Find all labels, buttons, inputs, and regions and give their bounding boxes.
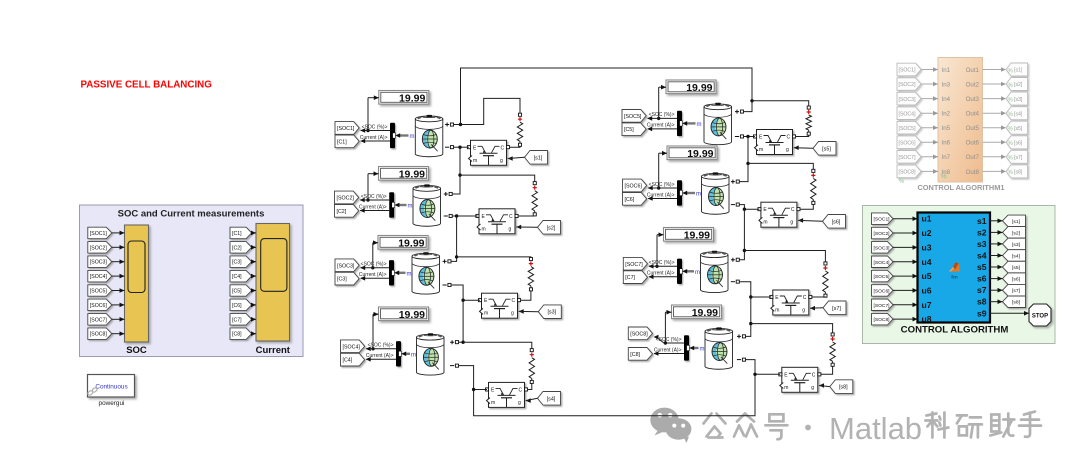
svg-text:[SOC7]: [SOC7] <box>899 155 917 161</box>
wire <box>990 278 1003 280</box>
from tag [SOC4] green panel <box>872 256 894 268</box>
gate arrow cell3 <box>519 309 524 314</box>
wire cell7 - path <box>740 282 772 297</box>
svg-text:[s6]: [s6] <box>1014 140 1023 146</box>
svg-text:%: % <box>1008 141 1014 147</box>
svg-text:[C4]: [C4] <box>343 358 353 364</box>
svg-text:m: m <box>407 271 412 277</box>
svg-text:m: m <box>700 347 705 353</box>
svg-text:u6: u6 <box>922 285 932 295</box>
svg-text:[C6]: [C6] <box>232 303 242 309</box>
battery + port cell5 <box>735 110 739 114</box>
svg-text:[SOC5]: [SOC5] <box>899 126 917 132</box>
wire <box>921 69 938 71</box>
commented from tag [SOC7] <box>897 151 921 164</box>
svg-text:19.99: 19.99 <box>684 230 710 242</box>
wire cell3 - path <box>451 285 480 300</box>
svg-text:Continuous: Continuous <box>95 384 127 391</box>
from tag [SOC2] green panel <box>872 227 894 239</box>
goto tag [SOC7] <box>623 257 647 270</box>
svg-text:[s1]: [s1] <box>534 155 543 161</box>
scope block SOC <box>125 225 149 342</box>
demux cell5 <box>677 111 682 136</box>
svg-text:[C1]: [C1] <box>232 231 242 237</box>
wire bottom rail <box>474 374 755 416</box>
STOP block <box>1029 304 1051 326</box>
svg-text:[s5]: [s5] <box>822 146 831 152</box>
wire cell6- to cell7+ <box>740 209 745 260</box>
svg-text:[s2]: [s2] <box>1012 230 1021 236</box>
wire resistor to C cell1 <box>510 146 520 149</box>
goto tag [C6] <box>623 193 647 206</box>
svg-text:In1: In1 <box>942 67 951 74</box>
battery - port cell7 <box>731 281 735 283</box>
resistor R3 <box>529 258 532 261</box>
svg-text:s9: s9 <box>977 308 987 318</box>
commented from tag [SOC6] <box>897 136 921 149</box>
panel SOC and Current measurements <box>80 205 304 357</box>
svg-text:[C2]: [C2] <box>337 209 347 215</box>
svg-text:[C8]: [C8] <box>232 332 242 338</box>
svg-text:%: % <box>1008 170 1014 176</box>
fcn logo <box>949 263 960 271</box>
svg-text:u8: u8 <box>922 314 932 324</box>
display Display1 19.99 <box>379 91 429 105</box>
from tag [SOC5] panel <box>88 285 112 296</box>
svg-text:<SOC (%)>: <SOC (%)> <box>362 124 388 130</box>
svg-text:u5: u5 <box>922 271 932 281</box>
svg-text:[SOC3]: [SOC3] <box>337 263 355 269</box>
IGBT switch cell8 <box>780 367 818 392</box>
svg-text:[SOC1]: [SOC1] <box>337 126 355 132</box>
demux cell6 <box>677 180 682 205</box>
goto tag [SOC8] <box>628 327 652 340</box>
svg-text:[SOC1]: [SOC1] <box>899 68 917 74</box>
battery + port cell1 <box>445 123 449 127</box>
wire Current row cell3 <box>361 277 389 279</box>
svg-text:[SOC3]: [SOC3] <box>874 245 891 251</box>
goto tag [s7] green panel <box>1003 284 1026 296</box>
wire cell2- to cell3+ <box>451 216 456 261</box>
from tag [C5] panel <box>230 285 252 296</box>
svg-text:m: m <box>697 122 702 128</box>
svg-text:C: C <box>787 135 791 141</box>
commented goto tag [s1] <box>1006 63 1028 76</box>
wire SOC row cell4 <box>366 348 396 350</box>
wire <box>921 141 938 143</box>
wire <box>252 333 256 335</box>
wire <box>983 170 1002 172</box>
svg-text:[SOC5]: [SOC5] <box>874 274 891 280</box>
svg-text:STOP: STOP <box>1032 313 1048 319</box>
svg-text:Current (A)>: Current (A)> <box>359 272 387 278</box>
resistor R8 <box>831 333 834 336</box>
svg-text:m: m <box>775 308 779 314</box>
wire SOC row cell3 <box>361 267 389 269</box>
wire s9 to STOP <box>990 312 1029 314</box>
wire resistor to C cell6 <box>800 205 813 210</box>
wire <box>893 289 918 291</box>
IGBT switch cell5 <box>755 130 793 155</box>
from tag [SOC6] panel <box>88 299 112 311</box>
panel CONTROL ALGORITHM <box>863 206 1056 344</box>
commented goto tag [s6] <box>1006 136 1028 149</box>
wire <box>990 301 1003 303</box>
svg-text:%: % <box>1008 97 1014 103</box>
svg-text:[SOC7]: [SOC7] <box>874 303 891 309</box>
wire SOC row cell1 <box>361 130 390 132</box>
wire A7 to R7 <box>744 251 825 262</box>
svg-text:g: g <box>786 147 789 153</box>
wire display feed cell3 <box>373 242 378 244</box>
svg-text:Current (A)>: Current (A)> <box>654 347 682 353</box>
svg-text:m: m <box>410 134 415 140</box>
svg-text:C: C <box>803 295 807 301</box>
battery cell3 <box>412 252 440 294</box>
svg-text:[SOC8]: [SOC8] <box>90 332 108 338</box>
svg-text:%: % <box>1008 156 1014 162</box>
wire <box>893 218 918 220</box>
wire <box>983 98 1002 100</box>
svg-text:<SOC (%)>: <SOC (%)> <box>361 262 387 268</box>
svg-text:%: % <box>1008 68 1014 74</box>
wire cell3- to cell4+ <box>459 300 463 342</box>
wire <box>983 69 1002 71</box>
svg-text:Out4: Out4 <box>966 111 980 118</box>
wire A4 to R4 <box>463 342 532 348</box>
svg-text:Current (A)>: Current (A)> <box>359 204 387 210</box>
from tag [s3] <box>538 305 561 319</box>
gate arrow cell8 <box>819 383 824 388</box>
battery cell7 <box>700 251 728 293</box>
battery cell5 <box>704 103 732 145</box>
commented from tag [SOC4] <box>897 107 921 120</box>
wire <box>990 289 1003 291</box>
svg-text:19.99: 19.99 <box>686 82 712 94</box>
svg-text:g: g <box>790 220 793 226</box>
svg-text:u2: u2 <box>922 228 932 238</box>
from tag [s5] <box>813 142 836 156</box>
svg-text:Current (A)>: Current (A)> <box>647 192 675 198</box>
svg-text:u4: u4 <box>922 257 932 267</box>
gate arrow cell4 <box>526 398 531 403</box>
goto tag [s5] green panel <box>1003 261 1026 273</box>
battery - port cell2 <box>444 215 448 217</box>
svg-text:[SOC1]: [SOC1] <box>874 217 891 223</box>
resistor R2 <box>533 182 536 185</box>
svg-text:s6: s6 <box>977 274 987 284</box>
goto tag [s2] green panel <box>1003 227 1026 239</box>
svg-text:[s8]: [s8] <box>1012 300 1021 306</box>
goto tag [C4] <box>341 353 365 366</box>
battery + port cell3 <box>443 259 447 263</box>
scope block Current <box>256 224 290 342</box>
svg-text:[s4]: [s4] <box>547 396 556 402</box>
svg-text:m: m <box>484 311 488 317</box>
battery cell1 <box>415 115 443 157</box>
wire cell7- to cell8+ <box>746 297 751 336</box>
wire gate cell4 <box>526 398 538 400</box>
svg-text:<SOC (%)>: <SOC (%)> <box>368 343 394 349</box>
svg-text:g: g <box>511 311 514 317</box>
wire Current row cell4 <box>366 358 396 360</box>
wire <box>983 156 1002 158</box>
from tag [s1] <box>525 151 548 165</box>
svg-text:[s6]: [s6] <box>1012 277 1021 283</box>
goto tag [s6] green panel <box>1003 273 1026 285</box>
battery - port cell8 <box>737 359 741 361</box>
from tag [s7] <box>823 301 846 315</box>
svg-text:In4: In4 <box>942 96 951 103</box>
demux cell8 <box>684 335 689 360</box>
gate arrow cell1 <box>508 156 513 161</box>
wire cell2 - junction <box>452 215 477 217</box>
from tag [SOC2] panel <box>88 242 112 254</box>
demux cell3 <box>389 260 394 285</box>
wire <box>921 127 938 129</box>
demux cell7 <box>677 259 682 284</box>
wire cell6 - path <box>740 205 760 210</box>
battery + port cell2 <box>444 192 448 196</box>
gate arrow cell6 <box>798 218 803 223</box>
svg-text:[s4]: [s4] <box>1012 254 1021 260</box>
wire A8 to R8 <box>751 324 833 333</box>
from tag [s4] <box>538 392 561 406</box>
svg-text:m: m <box>784 385 788 391</box>
from tag [C8] panel <box>230 328 252 340</box>
battery - port cell6 <box>731 204 735 206</box>
from tag [SOC1] green panel <box>872 213 894 225</box>
svg-text:s1: s1 <box>977 216 987 226</box>
svg-text:19.99: 19.99 <box>692 307 718 319</box>
svg-text:[SOC3]: [SOC3] <box>899 97 917 103</box>
svg-text:[SOC6]: [SOC6] <box>625 183 643 189</box>
IGBT switch cell6 <box>759 202 797 227</box>
wire Current row cell8 <box>654 353 684 355</box>
commented from tag [SOC2] <box>897 78 921 91</box>
svg-text:19.99: 19.99 <box>399 309 425 321</box>
wire <box>921 83 938 85</box>
wire <box>990 231 1003 233</box>
goto tag [s8] green panel <box>1003 296 1026 308</box>
wire gate cell2 <box>516 226 537 228</box>
svg-text:[C8]: [C8] <box>630 352 640 358</box>
svg-text:[SOC8]: [SOC8] <box>630 331 648 337</box>
svg-text:C: C <box>812 372 816 378</box>
commented from tag [SOC5] <box>897 121 921 134</box>
from tag [SOC3] green panel <box>872 242 894 254</box>
display Display4 19.99 <box>379 307 429 321</box>
display Display5 19.99 <box>666 80 716 94</box>
wire display feed cell7 <box>657 234 664 236</box>
svg-text:[s8]: [s8] <box>1014 170 1023 176</box>
wire <box>990 243 1003 245</box>
wire <box>252 246 256 248</box>
display Display8 19.99 <box>672 305 722 319</box>
svg-text:m: m <box>411 352 416 358</box>
IGBT switch cell3 <box>480 293 518 318</box>
svg-text:[SOC4]: [SOC4] <box>343 344 361 350</box>
wire cell1- to cell2+ <box>452 147 460 194</box>
wire Current row cell7 <box>649 276 677 278</box>
svg-text:[s5]: [s5] <box>1012 265 1021 271</box>
goto tag [SOC2] <box>335 191 359 204</box>
wire <box>112 318 125 320</box>
from tag [SOC3] panel <box>88 256 112 268</box>
wire <box>893 318 918 320</box>
wire <box>921 156 938 158</box>
svg-text:[SOC6]: [SOC6] <box>899 140 917 146</box>
resistor R1 <box>519 113 522 116</box>
IGBT switch cell7 <box>771 290 809 315</box>
svg-text:19.99: 19.99 <box>399 93 425 105</box>
svg-text:[s3]: [s3] <box>1014 97 1023 103</box>
IGBT switch cell4 <box>487 382 525 407</box>
svg-text:s7: s7 <box>977 285 987 295</box>
wire gate cell3 <box>519 310 539 312</box>
svg-text:C: C <box>509 214 513 220</box>
commented from tag [SOC3] <box>897 92 921 105</box>
wire gate cell7 <box>810 307 823 309</box>
from tag [C3] panel <box>230 256 252 268</box>
wire cell5 + path <box>744 101 752 112</box>
wire display feed cell8 <box>665 311 671 313</box>
svg-text:19.99: 19.99 <box>398 238 424 250</box>
wire <box>252 290 256 292</box>
from tag [SOC7] green panel <box>872 299 894 311</box>
svg-text:[SOC6]: [SOC6] <box>90 303 108 309</box>
svg-text:Matlab: Matlab <box>829 411 922 446</box>
wire <box>112 333 125 335</box>
svg-text:s3: s3 <box>977 239 987 249</box>
svg-text:m: m <box>482 226 486 232</box>
goto tag [SOC4] <box>341 340 365 353</box>
wire Current row cell5 <box>648 128 677 130</box>
commented goto tag [s7] <box>1006 150 1028 163</box>
wire <box>983 112 1002 114</box>
svg-text:g: g <box>509 226 512 232</box>
svg-text:Out8: Out8 <box>966 169 980 176</box>
wire cell4 - path <box>459 366 487 390</box>
wire Current row cell2 <box>360 210 389 212</box>
resistor R6 <box>812 169 815 172</box>
demux cell2 <box>389 192 394 217</box>
svg-text:[s1]: [s1] <box>1012 219 1021 225</box>
goto tag [SOC1] <box>335 122 359 135</box>
svg-text:[s3]: [s3] <box>547 310 556 316</box>
display Display3 19.99 <box>378 236 428 250</box>
svg-text:Out7: Out7 <box>966 154 980 161</box>
svg-text:[C7]: [C7] <box>232 317 242 323</box>
svg-text:[SOC7]: [SOC7] <box>90 317 108 323</box>
svg-text:[SOC2]: [SOC2] <box>337 195 355 201</box>
svg-text:<SOC (%)>: <SOC (%)> <box>649 260 675 266</box>
wire <box>252 232 256 234</box>
svg-text:[s3]: [s3] <box>1012 242 1021 248</box>
from tag [C7] panel <box>230 314 252 326</box>
goto tag [C8] <box>628 348 652 361</box>
wire <box>112 246 125 248</box>
svg-text:<SOC (%)>: <SOC (%)> <box>649 182 675 188</box>
from tag [SOC8] green panel <box>872 313 894 325</box>
battery + port cell4 <box>450 340 454 344</box>
wire <box>112 261 125 263</box>
svg-text:[SOC1]: [SOC1] <box>90 231 108 237</box>
svg-text:s4: s4 <box>977 251 987 261</box>
goto tag [SOC3] <box>335 259 359 272</box>
battery cell4 <box>416 333 444 375</box>
wire <box>893 261 918 263</box>
svg-text:In3: In3 <box>942 82 951 89</box>
wire <box>893 232 918 234</box>
wire <box>112 232 125 234</box>
wire resistor to C cell5 <box>796 135 809 136</box>
battery + port cell6 <box>731 180 735 184</box>
wire display feed cell1 <box>368 97 379 99</box>
wire cell5 - junction <box>744 136 755 138</box>
from tag [C2] panel <box>230 242 252 254</box>
display Display6 19.99 <box>667 146 717 160</box>
wire <box>112 304 125 306</box>
svg-text:In6: In6 <box>942 140 951 147</box>
svg-text:Out2: Out2 <box>966 82 980 89</box>
svg-text:[SOC2]: [SOC2] <box>90 245 108 251</box>
from tag [SOC6] green panel <box>872 285 894 297</box>
wire Current row cell6 <box>648 198 677 200</box>
svg-text:m: m <box>408 204 413 210</box>
svg-text:m: m <box>696 192 701 198</box>
svg-text:[s1]: [s1] <box>1014 68 1023 74</box>
from tag [SOC4] panel <box>88 270 112 282</box>
svg-text:m: m <box>695 270 700 276</box>
wire display feed cell4 <box>373 313 379 315</box>
wire <box>990 220 1003 222</box>
svg-text:In2: In2 <box>942 111 951 118</box>
svg-text:[SOC4]: [SOC4] <box>90 274 108 280</box>
svg-text:Current (A)>: Current (A)> <box>366 353 394 359</box>
svg-text:Current: Current <box>256 345 291 356</box>
wire <box>983 141 1002 143</box>
demux cell1 <box>390 123 395 148</box>
battery cell8 <box>705 327 733 369</box>
svg-text:[C4]: [C4] <box>232 274 242 280</box>
commented goto tag [s4] <box>1006 107 1028 120</box>
svg-text:[C5]: [C5] <box>232 289 242 295</box>
goto tag [C5] <box>622 123 646 136</box>
wire <box>252 275 256 277</box>
wire resistor to C cell8 <box>821 367 833 375</box>
demux cell4 <box>396 341 401 366</box>
from tag [s6] <box>823 215 846 229</box>
svg-text:s8: s8 <box>977 297 987 307</box>
svg-text:[SOC4]: [SOC4] <box>899 111 917 117</box>
svg-text:[SOC2]: [SOC2] <box>874 231 891 237</box>
MATLAB Function block fcn <box>918 213 991 323</box>
wire <box>983 83 1002 85</box>
svg-text:<SOC (%)>: <SOC (%)> <box>656 337 682 343</box>
svg-text:[s4]: [s4] <box>1014 111 1023 117</box>
svg-text:Current (A)>: Current (A)> <box>647 271 675 277</box>
wire <box>252 318 256 320</box>
svg-text:m: m <box>763 220 767 226</box>
wire A3 to R3 <box>457 256 531 259</box>
wire resistor to C cell7 <box>812 296 825 298</box>
commented from tag [SOC1] <box>897 63 921 76</box>
wire cell1 - junction <box>454 146 469 148</box>
wire SOC row cell8 <box>656 337 684 343</box>
svg-text:[C5]: [C5] <box>624 127 634 133</box>
wire display feed cell2 <box>368 173 379 175</box>
